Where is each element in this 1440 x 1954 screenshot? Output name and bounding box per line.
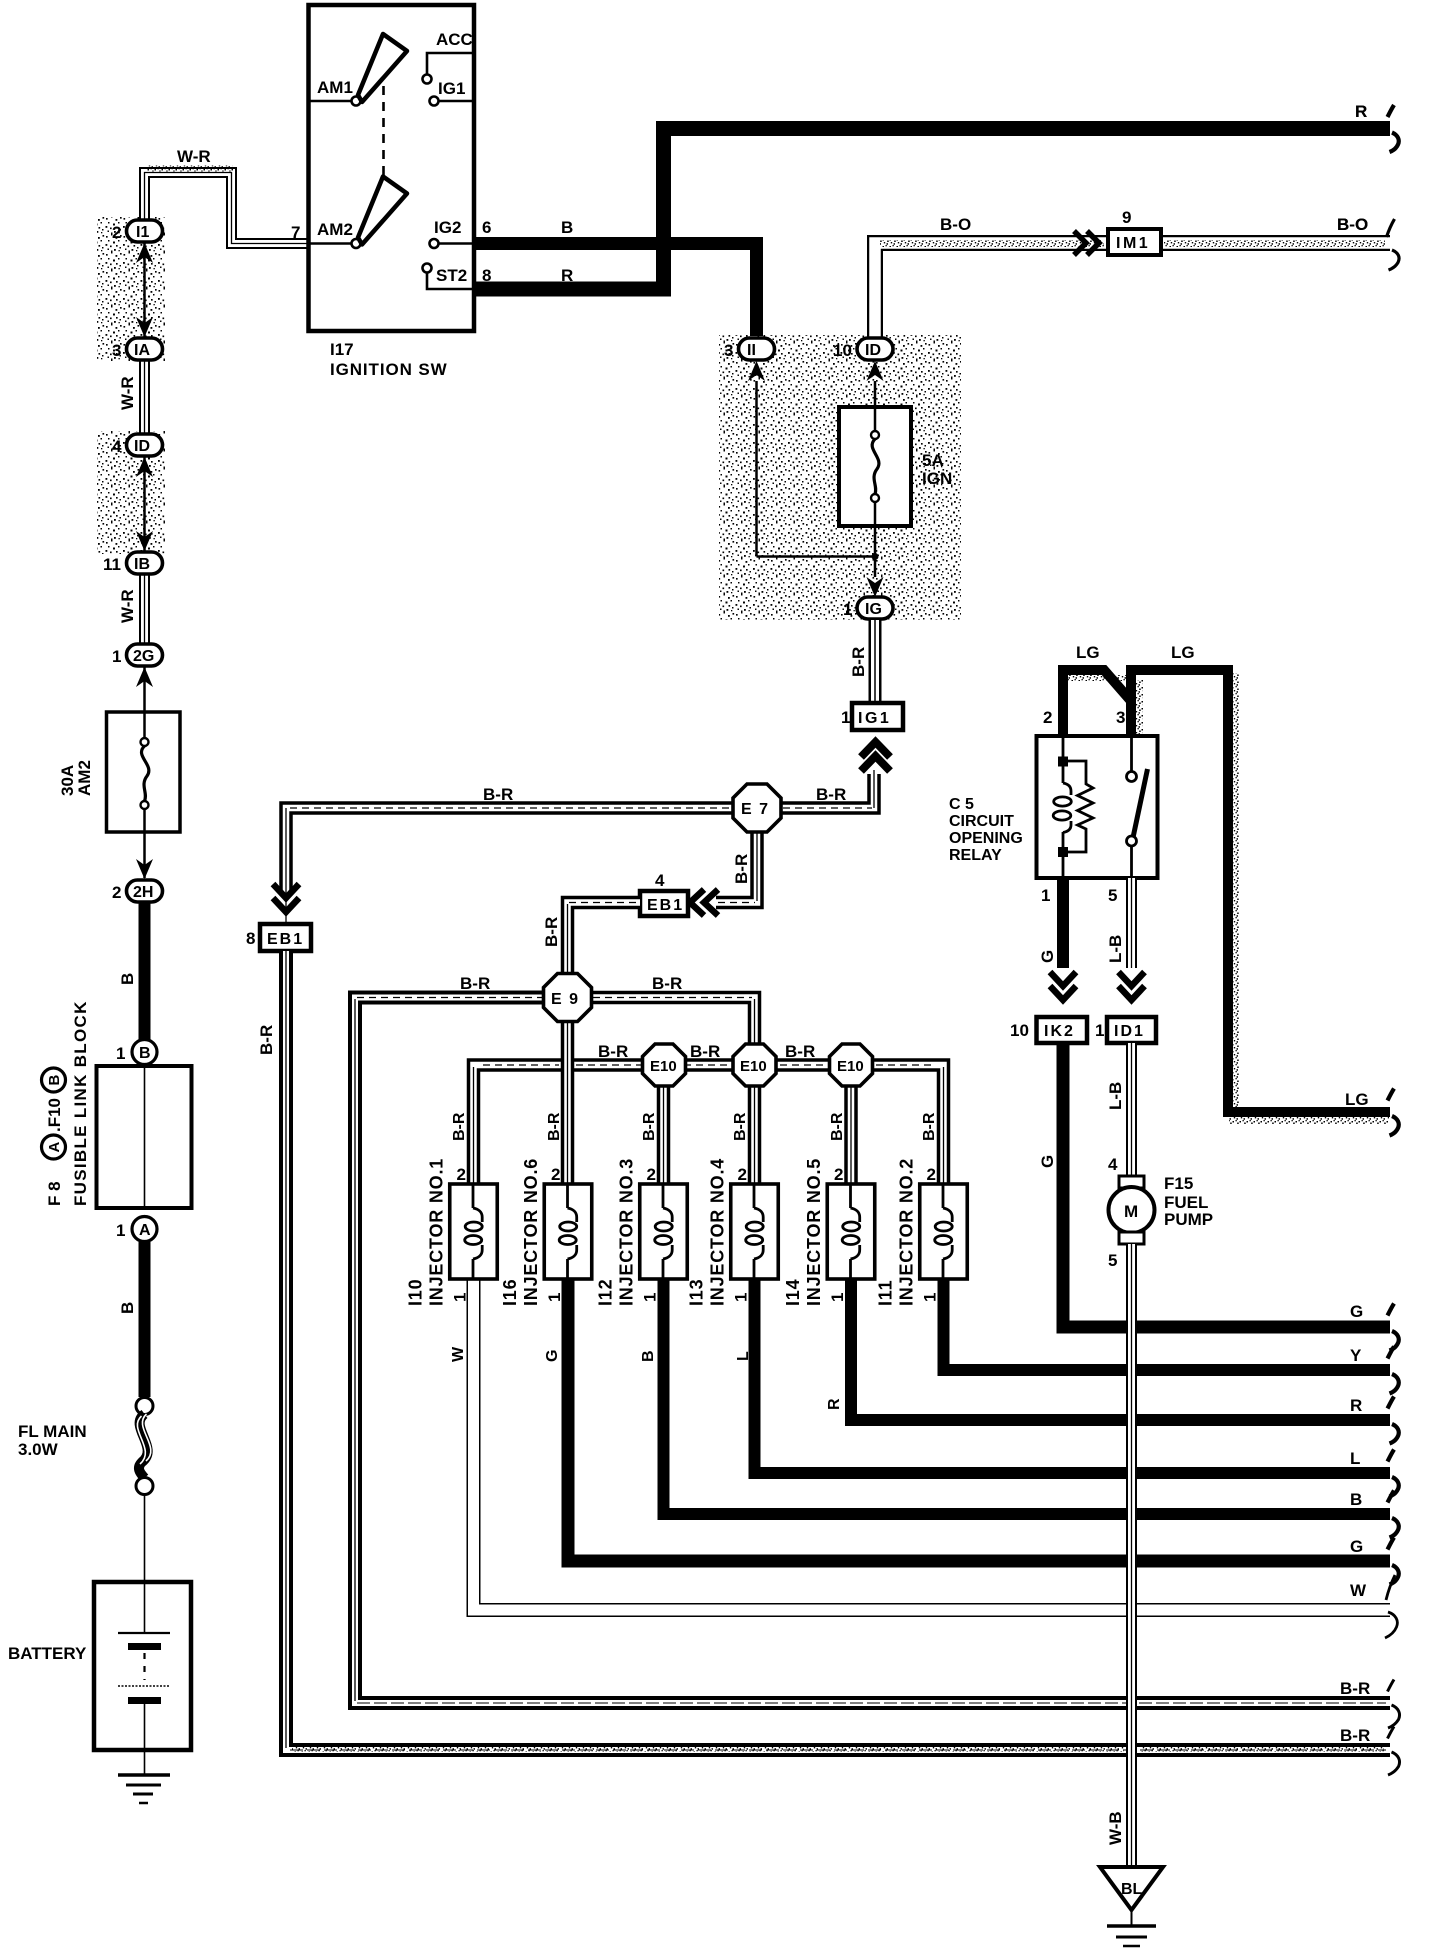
svg-text:ACC: ACC xyxy=(436,30,473,49)
svg-text:IG1: IG1 xyxy=(858,710,891,727)
svg-text:I14: I14 xyxy=(783,1279,803,1306)
svg-text:INJECTOR NO.6: INJECTOR NO.6 xyxy=(521,1158,541,1306)
svg-text:B-R: B-R xyxy=(732,854,751,884)
svg-text:B-R: B-R xyxy=(598,1042,628,1061)
svg-text:B-R: B-R xyxy=(257,1025,276,1055)
svg-text:EB1: EB1 xyxy=(647,897,684,914)
svg-text:B: B xyxy=(1350,1490,1362,1509)
svg-text:2: 2 xyxy=(647,1165,656,1184)
svg-text:I12: I12 xyxy=(596,1279,616,1306)
svg-text:3: 3 xyxy=(112,341,121,360)
svg-text:E 9: E 9 xyxy=(551,991,580,1008)
svg-text:INJECTOR NO.4: INJECTOR NO.4 xyxy=(708,1158,728,1306)
svg-text:B-R: B-R xyxy=(785,1042,815,1061)
svg-text:G: G xyxy=(1350,1302,1363,1321)
svg-text:3: 3 xyxy=(724,341,733,360)
svg-text:LG: LG xyxy=(1345,1090,1369,1109)
svg-text:INJECTOR NO.5: INJECTOR NO.5 xyxy=(804,1158,824,1306)
svg-text:B: B xyxy=(561,218,573,237)
svg-text:W-R: W-R xyxy=(177,147,211,166)
svg-text:1: 1 xyxy=(1041,886,1050,905)
svg-text:1: 1 xyxy=(841,708,850,727)
svg-text:W: W xyxy=(1350,1581,1367,1600)
svg-text:1: 1 xyxy=(732,1293,751,1302)
svg-text:8: 8 xyxy=(246,929,255,948)
svg-text:ST2: ST2 xyxy=(436,266,467,285)
svg-text:B-R: B-R xyxy=(460,974,490,993)
svg-text:2: 2 xyxy=(112,223,121,242)
svg-text:C 5: C 5 xyxy=(949,796,974,813)
svg-text:2: 2 xyxy=(738,1165,747,1184)
svg-text:IB: IB xyxy=(134,556,150,573)
svg-text:I17: I17 xyxy=(330,340,354,359)
svg-text:I13: I13 xyxy=(687,1279,707,1306)
svg-text:I10: I10 xyxy=(406,1279,426,1306)
svg-text:F15: F15 xyxy=(1164,1174,1193,1193)
svg-text:R: R xyxy=(1350,1396,1362,1415)
svg-text:INJECTOR NO.1: INJECTOR NO.1 xyxy=(427,1158,447,1306)
svg-text:B-R: B-R xyxy=(816,785,846,804)
svg-text:5: 5 xyxy=(1108,886,1117,905)
svg-text:INJECTOR NO.3: INJECTOR NO.3 xyxy=(617,1158,637,1306)
svg-text:LG: LG xyxy=(1171,643,1195,662)
svg-text:B: B xyxy=(118,1302,137,1314)
svg-text:1: 1 xyxy=(451,1293,470,1302)
svg-text:B-R: B-R xyxy=(732,1112,749,1141)
svg-text:1: 1 xyxy=(545,1293,564,1302)
svg-text:1: 1 xyxy=(843,600,852,619)
svg-text:CIRCUIT: CIRCUIT xyxy=(949,813,1014,830)
svg-text:L-B: L-B xyxy=(1106,935,1125,963)
svg-text:B: B xyxy=(139,1045,151,1062)
svg-text:E10: E10 xyxy=(837,1058,864,1075)
svg-text:1: 1 xyxy=(1095,1021,1104,1040)
svg-text:W-R: W-R xyxy=(118,376,137,410)
svg-text:FL MAIN: FL MAIN xyxy=(18,1422,87,1441)
svg-text:B-R: B-R xyxy=(652,974,682,993)
svg-text:2: 2 xyxy=(834,1165,843,1184)
svg-text:B: B xyxy=(640,1350,657,1362)
svg-text:PUMP: PUMP xyxy=(1164,1210,1213,1229)
svg-text:R: R xyxy=(1355,102,1367,121)
svg-text:L: L xyxy=(735,1351,752,1361)
svg-text:3: 3 xyxy=(1116,708,1125,727)
svg-text:4: 4 xyxy=(1108,1155,1118,1174)
svg-text:11: 11 xyxy=(103,555,121,574)
svg-text:AM2: AM2 xyxy=(75,760,94,796)
svg-text:IGN: IGN xyxy=(922,469,952,488)
svg-text:W-B: W-B xyxy=(1106,1811,1125,1845)
svg-text:6: 6 xyxy=(482,218,491,237)
svg-text:B-O: B-O xyxy=(940,215,971,234)
svg-text:OPENING: OPENING xyxy=(949,830,1023,847)
svg-text:AM1: AM1 xyxy=(317,78,353,97)
svg-text:R: R xyxy=(826,1398,843,1410)
svg-text:1: 1 xyxy=(116,1221,125,1240)
svg-text:F 8: F 8 xyxy=(45,1181,64,1206)
svg-text:B-R: B-R xyxy=(849,647,868,677)
svg-text:II: II xyxy=(747,342,756,359)
svg-text:4: 4 xyxy=(112,437,122,456)
svg-text:W-R: W-R xyxy=(118,589,137,623)
svg-text:G: G xyxy=(544,1350,561,1362)
svg-text:I1: I1 xyxy=(136,224,149,241)
svg-text:L-B: L-B xyxy=(1106,1082,1125,1110)
svg-text:M: M xyxy=(1124,1202,1138,1221)
svg-text:2: 2 xyxy=(457,1165,466,1184)
svg-text:INJECTOR NO.2: INJECTOR NO.2 xyxy=(897,1158,917,1306)
svg-text:B: B xyxy=(118,973,137,985)
svg-text:B-R: B-R xyxy=(921,1112,938,1141)
svg-text:7: 7 xyxy=(291,223,300,242)
svg-text:B-R: B-R xyxy=(542,917,561,947)
svg-text:1: 1 xyxy=(641,1293,660,1302)
svg-text:AM2: AM2 xyxy=(317,220,353,239)
svg-text:B-R: B-R xyxy=(690,1042,720,1061)
svg-text:2: 2 xyxy=(551,1165,560,1184)
svg-text:G: G xyxy=(1350,1537,1363,1556)
svg-text:ID: ID xyxy=(865,342,881,359)
svg-text:1: 1 xyxy=(112,647,121,666)
svg-text:IG: IG xyxy=(865,601,882,618)
svg-text:IM1: IM1 xyxy=(1116,235,1150,252)
svg-text:.F10: .F10 xyxy=(45,1098,64,1132)
svg-text:BL: BL xyxy=(1121,1881,1143,1898)
svg-text:IGNITION SW: IGNITION SW xyxy=(330,360,448,379)
svg-text:R: R xyxy=(561,266,573,285)
svg-text:10: 10 xyxy=(833,341,852,360)
svg-text:B-R: B-R xyxy=(483,785,513,804)
svg-text:B-R: B-R xyxy=(1340,1726,1370,1745)
svg-text:ID1: ID1 xyxy=(1114,1023,1145,1040)
svg-text:G: G xyxy=(1038,950,1057,963)
svg-text:4: 4 xyxy=(655,871,665,890)
svg-text:2: 2 xyxy=(1043,708,1052,727)
svg-text:B-R: B-R xyxy=(451,1112,468,1141)
svg-text:B-R: B-R xyxy=(641,1112,658,1141)
svg-text:2G: 2G xyxy=(133,648,154,665)
svg-text:RELAY: RELAY xyxy=(949,847,1002,864)
svg-text:A: A xyxy=(46,1142,63,1153)
svg-text:5A: 5A xyxy=(922,451,944,470)
svg-text:B-R: B-R xyxy=(546,1112,563,1141)
svg-text:FUSIBLE LINK BLOCK: FUSIBLE LINK BLOCK xyxy=(71,1000,90,1206)
svg-text:B: B xyxy=(46,1075,63,1086)
svg-text:IK2: IK2 xyxy=(1044,1023,1075,1040)
svg-text:B-O: B-O xyxy=(1337,215,1368,234)
svg-text:Y: Y xyxy=(1350,1346,1362,1365)
svg-text:LG: LG xyxy=(1076,643,1100,662)
svg-text:E10: E10 xyxy=(740,1058,767,1075)
svg-text:B-R: B-R xyxy=(829,1112,846,1141)
svg-text:E 7: E 7 xyxy=(741,801,770,818)
svg-text:IA: IA xyxy=(134,342,150,359)
svg-text:1: 1 xyxy=(921,1293,940,1302)
svg-text:2: 2 xyxy=(927,1165,936,1184)
svg-text:9: 9 xyxy=(1122,208,1131,227)
svg-text:I11: I11 xyxy=(876,1280,896,1306)
svg-text:1: 1 xyxy=(116,1044,125,1063)
svg-text:BATTERY: BATTERY xyxy=(8,1644,87,1663)
svg-text:5: 5 xyxy=(1108,1251,1117,1270)
svg-text:10: 10 xyxy=(1010,1021,1029,1040)
svg-text:IG1: IG1 xyxy=(438,79,465,98)
svg-text:W: W xyxy=(450,1346,467,1362)
svg-text:G: G xyxy=(1038,1155,1057,1168)
svg-text:B-R: B-R xyxy=(1340,1679,1370,1698)
svg-text:A: A xyxy=(139,1222,151,1239)
svg-text:EB1: EB1 xyxy=(267,931,304,948)
svg-text:3.0W: 3.0W xyxy=(18,1440,59,1459)
svg-text:L: L xyxy=(1350,1449,1360,1468)
svg-text:2: 2 xyxy=(112,883,121,902)
svg-text:2H: 2H xyxy=(133,884,153,901)
svg-text:ID: ID xyxy=(134,438,150,455)
svg-text:E10: E10 xyxy=(650,1058,677,1075)
svg-text:I16: I16 xyxy=(500,1279,520,1306)
svg-text:IG2: IG2 xyxy=(434,218,461,237)
svg-text:1: 1 xyxy=(828,1293,847,1302)
